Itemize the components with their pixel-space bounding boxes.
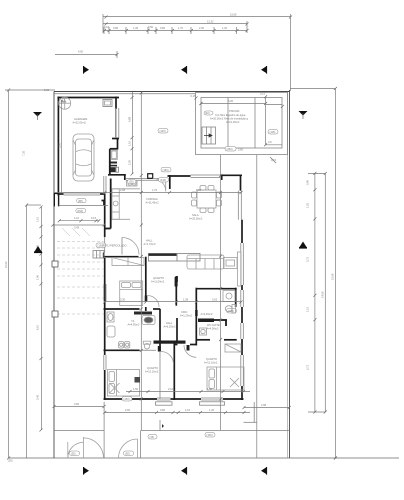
svg-text:A=20,00m2 Área de inundação: A=20,00m2 Área de inundação g — [210, 117, 249, 121]
svg-text:SALA: SALA — [192, 213, 199, 217]
svg-text:HALL: HALL — [166, 321, 173, 325]
svg-text:(140): (140) — [160, 178, 166, 182]
svg-text:12,32: 12,32 — [207, 20, 214, 24]
svg-text:3,75: 3,75 — [306, 256, 310, 262]
svg-text:(150): (150) — [77, 209, 83, 213]
svg-text:1,70: 1,70 — [152, 188, 158, 192]
svg-text:4,50: 4,50 — [78, 50, 84, 54]
svg-text:QUARTO: QUARTO — [147, 366, 158, 370]
svg-text:0,80: 0,80 — [113, 26, 119, 30]
svg-text:0,10: 0,10 — [104, 25, 110, 29]
svg-text:0,9: 0,9 — [268, 140, 272, 144]
svg-text:A=1,70m2: A=1,70m2 — [144, 242, 156, 246]
svg-text:7,35: 7,35 — [22, 150, 26, 156]
svg-text:A=11,45m2: A=11,45m2 — [146, 201, 160, 205]
svg-text:5,00: 5,00 — [228, 99, 234, 103]
svg-text:(115): (115) — [270, 130, 276, 134]
svg-text:(35): (35) — [8, 459, 13, 463]
svg-text:2,60: 2,60 — [125, 408, 131, 412]
svg-text:QUARTO: QUARTO — [206, 357, 217, 361]
svg-text:A=12,10m2: A=12,10m2 — [145, 370, 159, 374]
svg-text:31,52: 31,52 — [4, 261, 8, 268]
svg-text:(98): (98) — [78, 199, 83, 203]
svg-text:(40): (40) — [205, 111, 210, 115]
svg-text:h=1,50m Espelho de água: h=1,50m Espelho de água — [215, 113, 246, 117]
svg-text:(150): (150) — [163, 168, 169, 172]
svg-text:1,10: 1,10 — [74, 216, 80, 220]
svg-text:A=1,20m2: A=1,20m2 — [180, 314, 192, 318]
svg-text:1,55: 1,55 — [306, 202, 310, 208]
svg-text:2,30: 2,30 — [199, 26, 205, 30]
svg-text:2,20: 2,20 — [128, 159, 132, 165]
svg-text:1,70: 1,70 — [178, 26, 184, 30]
svg-text:PROJ.PERGOLADO: PROJ.PERGOLADO — [103, 244, 127, 248]
svg-text:2,98: 2,98 — [120, 188, 126, 192]
svg-text:WC SUITE: WC SUITE — [207, 323, 220, 327]
svg-text:PISCINA: PISCINA — [229, 109, 240, 113]
svg-text:31,06: 31,06 — [330, 273, 334, 280]
svg-text:0,15: 0,15 — [271, 158, 277, 162]
svg-text:2,98: 2,98 — [261, 403, 267, 407]
svg-text:3,45: 3,45 — [36, 394, 40, 400]
svg-text:4,88: 4,88 — [128, 116, 132, 122]
svg-text:4,60: 4,60 — [196, 188, 202, 192]
svg-text:(100): (100) — [207, 433, 213, 437]
svg-text:COZINHA: COZINHA — [146, 197, 158, 201]
svg-text:0,90: 0,90 — [306, 179, 310, 185]
svg-text:1,50: 1,50 — [133, 387, 139, 391]
svg-text:(100): (100) — [160, 129, 166, 133]
svg-text:0,15: 0,15 — [260, 92, 266, 96]
svg-text:A=11,00m2: A=11,00m2 — [151, 280, 165, 284]
svg-text:1,20: 1,20 — [222, 26, 228, 30]
svg-text:A=4,30m2: A=4,30m2 — [128, 323, 140, 327]
svg-text:A=22,00m2: A=22,00m2 — [73, 121, 87, 125]
svg-text:1,50: 1,50 — [207, 387, 213, 391]
svg-text:0,15: 0,15 — [91, 216, 97, 220]
svg-text:1,10: 1,10 — [185, 408, 191, 412]
svg-text:A=6,25m2: A=6,25m2 — [164, 325, 176, 329]
svg-text:0,80: 0,80 — [160, 26, 166, 30]
svg-text:0,30: 0,30 — [44, 88, 50, 92]
svg-text:3,00: 3,00 — [74, 402, 80, 406]
svg-text:3,63: 3,63 — [212, 298, 218, 302]
svg-text:2,60: 2,60 — [238, 148, 244, 152]
svg-text:3,45: 3,45 — [74, 226, 80, 230]
svg-text:15,06: 15,06 — [230, 13, 237, 17]
svg-text:I.S.: I.S. — [131, 319, 135, 323]
svg-text:A=3,20m2: A=3,20m2 — [201, 312, 213, 316]
svg-text:(30): (30) — [129, 180, 134, 184]
svg-text:1,38: 1,38 — [183, 298, 189, 302]
svg-text:1,30: 1,30 — [133, 26, 139, 30]
svg-text:1,20: 1,20 — [209, 408, 215, 412]
svg-text:A=12,10m2: A=12,10m2 — [204, 361, 218, 365]
svg-text:1,10: 1,10 — [128, 140, 132, 146]
svg-text:14,06: 14,06 — [320, 291, 324, 298]
svg-text:(150): (150) — [124, 397, 130, 401]
svg-text:HALL: HALL — [146, 239, 153, 243]
svg-text:0,80: 0,80 — [160, 408, 166, 412]
svg-text:1,10: 1,10 — [36, 216, 40, 222]
svg-text:0,15: 0,15 — [191, 94, 197, 98]
svg-text:5,50: 5,50 — [58, 142, 62, 148]
svg-text:1,10: 1,10 — [306, 306, 310, 312]
svg-text:CIRC.: CIRC. — [181, 310, 188, 314]
svg-text:(55): (55) — [71, 452, 76, 456]
svg-text:0,50: 0,50 — [148, 25, 154, 29]
svg-text:(260): (260) — [227, 147, 233, 151]
svg-text:5,75: 5,75 — [306, 364, 310, 370]
svg-text:A=4,00m2: A=4,00m2 — [207, 327, 219, 331]
svg-text:3,30: 3,30 — [120, 298, 126, 302]
svg-text:1,90: 1,90 — [36, 274, 40, 280]
svg-text:(15): (15) — [150, 435, 155, 439]
svg-text:2,10: 2,10 — [168, 387, 174, 391]
svg-text:(50): (50) — [125, 452, 130, 456]
svg-text:GARAGEM: GARAGEM — [74, 117, 87, 121]
svg-text:6,10: 6,10 — [36, 324, 40, 330]
svg-text:QUARTO: QUARTO — [153, 276, 164, 280]
svg-text:A=21,00m2: A=21,00m2 — [226, 120, 240, 124]
svg-text:A=25,00m2: A=25,00m2 — [189, 217, 203, 221]
